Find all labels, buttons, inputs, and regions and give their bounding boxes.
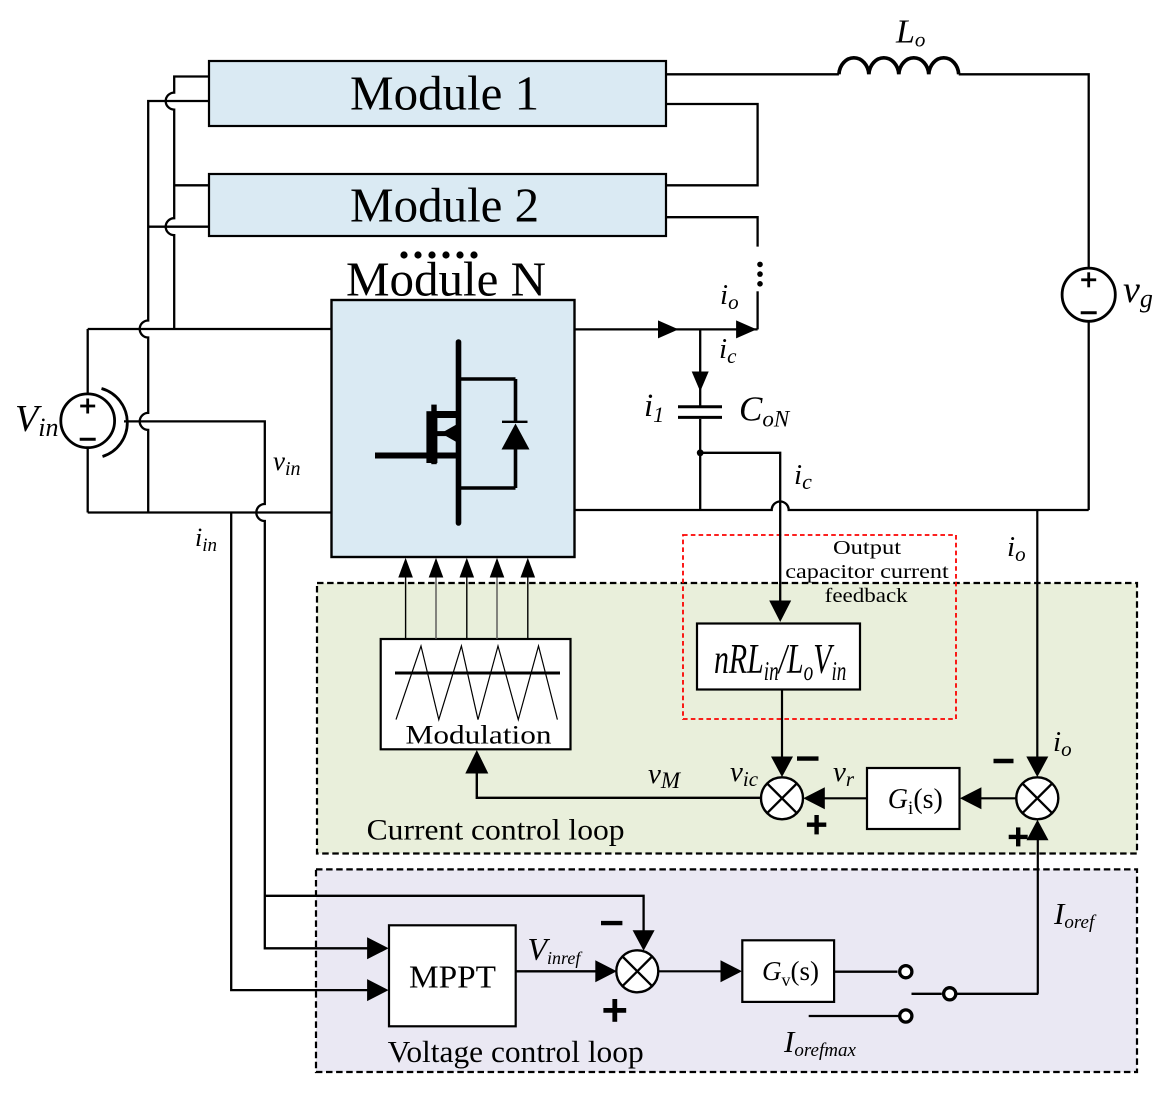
wire: capacitor branch down from io node — [699, 329, 701, 406]
svg-text:capacitor current: capacitor current — [785, 561, 949, 583]
svg-text:Module 1: Module 1 — [350, 65, 539, 120]
output capacitor current feedback region (red dashed box) — [683, 535, 956, 719]
node: junction dot below capacitor — [697, 449, 704, 456]
minus sign above voltage junction — [601, 921, 622, 925]
source vg — [1062, 268, 1115, 321]
wire: below capacitor to bottom bus — [699, 419, 701, 510]
arrow: vr into vic junction — [803, 787, 825, 809]
labels in red box: output capacitor current feedback — [785, 537, 949, 607]
wire: module2 lower-left stub — [148, 226, 209, 228]
wire: vg bottom lead to bottom bus — [1088, 321, 1090, 510]
wire: Vin top lead — [87, 329, 89, 394]
transistor Q (inside module N) — [375, 342, 460, 523]
svg-text:Voltage control loop: Voltage control loop — [388, 1034, 644, 1069]
wire: Gi to vic junction — [820, 797, 867, 799]
voltage control loop region (purple box) — [316, 869, 1137, 1072]
arrow: vin into MPPT — [367, 937, 389, 959]
wire: module1 lower-right stub to module2 upper-right stub — [666, 104, 758, 185]
wire: module2 upper-left stub — [174, 184, 209, 186]
switch blade — [912, 993, 942, 995]
svg-text:Output: Output — [833, 537, 902, 559]
arrow: Vinref into voltage summing junction — [595, 960, 617, 982]
nRL block — [697, 624, 860, 690]
minus sign left of io junction — [994, 759, 1014, 763]
MPPT block — [389, 925, 516, 1026]
wire: module1 lower-left stub and outer left bus (hops at y=329 and y=421) — [140, 101, 209, 513]
arrow: vin into summing junction top — [633, 930, 655, 951]
svg-text:feedback: feedback — [825, 585, 908, 607]
arrow: into Gi right edge — [960, 787, 982, 809]
arrow: into modulation block bottom — [465, 750, 488, 774]
wire: module1 to inductor — [666, 73, 839, 75]
wire: MPPT output Vinref to voltage summing junction — [516, 970, 601, 972]
switch lower contact — [900, 1010, 912, 1022]
svg-text:Module 2: Module 2 — [350, 178, 539, 233]
block Gi(s) — [867, 768, 960, 829]
arrow: io wire right arrowhead — [736, 320, 757, 338]
arrow: ic down arrowhead above capacitor — [692, 372, 709, 392]
wire: switch common to Ioref riser — [956, 993, 1038, 995]
arrow: into Gv left edge — [721, 960, 743, 982]
switch upper contact — [900, 966, 912, 978]
svg-text:Current control loop: Current control loop — [367, 814, 625, 847]
gate drive arrows from modulation to module N — [398, 558, 535, 639]
modulation block — [381, 639, 571, 749]
svg-text:nRLin/LoVin: nRLin/LoVin — [714, 637, 846, 686]
plus sign at vic bottom — [807, 815, 826, 834]
wire: top horizontal Vin+ to module N left — [88, 328, 332, 330]
freewheel diode (inside module N) — [459, 379, 530, 488]
source Vin — [61, 389, 128, 457]
wire: bottom bus left segment — [88, 511, 332, 513]
wire: Iorefmax lower throw — [809, 1015, 899, 1017]
wire: io sense from bottom bus down to right summing junction — [1036, 510, 1038, 758]
switch common contact — [944, 988, 956, 1000]
wire: right summing junction to Gi — [977, 797, 1016, 799]
wire: vM from vic junction to modulation — [477, 772, 762, 798]
module N box — [332, 300, 575, 557]
wire: bottom bus right segment (hops over ic feedback wire) — [575, 502, 1089, 511]
wire: vin sense from source arc to MPPT (hops bottom bus) — [124, 421, 382, 948]
svg-text:Modulation: Modulation — [406, 720, 552, 749]
summing junction voltage loop — [616, 950, 658, 992]
ellipsis dots between modules — [400, 251, 477, 258]
arrow: into vic summing junction top — [771, 757, 793, 778]
wire: Vin bottom lead — [87, 448, 89, 513]
svg-text:Gi(s): Gi(s) — [888, 784, 943, 819]
block Gv(s) — [742, 940, 834, 1002]
current control loop region (green box) — [317, 583, 1137, 854]
wire: nRL block to vic summing junction — [781, 690, 783, 759]
module 2 box — [209, 174, 666, 236]
plus sign below voltage junction — [603, 999, 626, 1022]
wire: module1 upper-left stub and inner left bus (hops over lower stubs) — [166, 77, 209, 330]
wire: Gv to switch upper contact — [834, 971, 897, 973]
wire: module2 lower-right stub down to dots — [666, 217, 758, 246]
wire: ic feedback tap to nRL block — [700, 453, 780, 605]
module 1 box — [209, 61, 666, 126]
wire: inductor to vg — [959, 74, 1089, 268]
svg-text:Module N: Module N — [346, 252, 546, 307]
wire: iin sense down to MPPT — [231, 513, 381, 991]
arrow: io into right summing junction top — [1026, 757, 1048, 778]
summing junction io — [1016, 777, 1058, 819]
svg-text:MPPT: MPPT — [409, 959, 496, 995]
wire: Ioref from switch up to right summing junction — [1037, 840, 1039, 994]
plus sign below io junction — [1009, 827, 1028, 846]
capacitor CoN — [678, 407, 722, 418]
inductor Lo — [839, 58, 959, 74]
wire: io output wire from module N right — [575, 328, 758, 330]
wire: voltage summing junction to Gv — [658, 970, 723, 972]
arrow: Ioref into right summing junction bottom — [1027, 820, 1049, 841]
wire: vin branch to voltage-loop minus input — [265, 896, 644, 935]
wire: from dots down to io node — [756, 291, 758, 329]
arrow: iin into MPPT — [367, 979, 389, 1001]
arrow: io wire left arrowhead — [658, 320, 679, 338]
minus sign at vic top — [797, 756, 819, 760]
vertical ellipsis dots — [757, 262, 763, 287]
svg-text:Gv(s): Gv(s) — [762, 956, 819, 990]
arrow: into nRL block top — [769, 601, 791, 623]
summing junction vic — [761, 777, 803, 819]
